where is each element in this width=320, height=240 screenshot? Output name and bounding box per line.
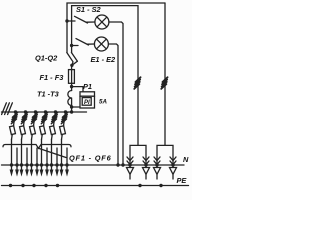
node lamp2 return on N — [116, 163, 119, 166]
wire phase A: left vertical riser x67 up and across top to right riser x165 — [67, 3, 165, 53]
circuit breaker QF4 — [40, 110, 48, 139]
node lamp1 return on N — [121, 163, 124, 166]
wire group line 3 (neutral stub) with arrow — [35, 148, 39, 177]
socket symbol (box2 right leg) open triangle below N bus — [170, 165, 177, 179]
wire meter bottom tap — [72, 106, 80, 108]
wire lamp2 return to N — [108, 44, 118, 165]
svg-text:P1: P1 — [83, 82, 92, 91]
node feeder to bus — [70, 110, 73, 113]
wire to lamp 2 — [88, 43, 95, 45]
switch Q1-Q2 lever 2 — [71, 53, 77, 62]
N bus — [2, 164, 185, 166]
leader line to label — [39, 148, 67, 157]
plug connector (box1 left leg) chevrons on N bus — [127, 157, 133, 167]
phase bus — [2, 111, 87, 113]
switch Q1-Q2 (double pole) lever 1 — [67, 53, 73, 66]
plug connector (box2 right leg) chevrons on N bus — [170, 157, 176, 167]
riser hatch mark (breaker) on x138 — [134, 77, 140, 89]
lamp (S1-S2 circuit) circle with cross — [95, 15, 109, 29]
svg-text:Q1-Q2: Q1-Q2 — [35, 54, 58, 63]
wire lamp1 return to N — [109, 22, 123, 165]
wire to lamp 1 — [87, 21, 95, 23]
wire group line 4 (phase) to N bus crossing — [40, 140, 44, 177]
box1 (socket group) — [130, 145, 146, 165]
brace for QF1-QF6 — [3, 145, 71, 149]
PE bus connection dots — [9, 184, 163, 187]
circuit breaker QF3 — [30, 110, 38, 139]
wire group line 4 (neutral stub) with arrow — [45, 148, 49, 177]
meter P1 box — [80, 92, 95, 108]
wire group line 6 (phase) to N bus crossing — [60, 140, 64, 177]
svg-text:5A: 5A — [99, 99, 107, 106]
plug connector (box2 left leg) chevrons on N bus — [154, 157, 160, 167]
wire group line 1 (phase) to N bus crossing — [10, 140, 14, 177]
circuit breaker QF2 — [20, 110, 28, 139]
wire meter top tap — [72, 87, 83, 92]
wire group line 2 (neutral stub) with arrow — [25, 148, 29, 177]
node below Q1-Q2 — [70, 64, 73, 67]
wire group line 5 (neutral stub) with arrow — [55, 148, 59, 177]
circuit breaker QF1 — [10, 110, 18, 139]
socket symbol (box1 right leg) open triangle below N bus — [143, 165, 150, 179]
wire group line 3 (phase) to N bus crossing — [30, 140, 34, 177]
socket symbol (box1 left leg) open triangle below N bus — [127, 165, 134, 179]
circuit breaker QF6 — [60, 110, 68, 139]
box2 (socket group) — [157, 145, 173, 165]
svg-text:N: N — [183, 155, 189, 164]
circuit breaker QF5 — [50, 110, 58, 139]
wire phase B: left vertical riser x71.6 up and across top to riser x138 — [72, 6, 138, 53]
node tap for switch E1-E2 — [70, 44, 73, 47]
wire fuse to CT — [71, 83, 73, 90]
wire group line 6 (neutral stub) with arrow — [65, 148, 69, 177]
wire riser to box2 (x165 down) — [164, 3, 166, 145]
wire converge below Q1-Q2 — [72, 61, 77, 65]
current transformer T1-T3 (two arcs) — [68, 91, 72, 106]
switch (E1-E2 circuit) lever — [76, 39, 89, 45]
svg-text:QF1 - QF6: QF1 - QF6 — [69, 154, 112, 163]
riser hatch mark (breaker) on x165 — [161, 77, 167, 89]
svg-text:PE: PE — [177, 176, 188, 185]
lamp E1-E2 circle with cross — [94, 37, 108, 51]
wire to fuse — [71, 65, 73, 69]
node tap for switch S1-S2 — [65, 19, 68, 22]
switch S1-S2 lever — [75, 16, 88, 23]
wire group line 1 (neutral stub) with arrow — [15, 148, 19, 177]
PE bus — [2, 185, 189, 187]
wire CT to bus — [71, 98, 73, 112]
wire stub to E1-E2 switch — [72, 45, 78, 47]
wire group line 2 (phase) to N bus crossing — [20, 140, 24, 177]
node meter top tap — [70, 85, 73, 88]
socket symbol (box2 left leg) open triangle below N bus — [154, 165, 161, 179]
svg-text:S1 - S2: S1 - S2 — [76, 5, 102, 14]
three-phase marker slashes — [2, 103, 13, 115]
svg-text:F1 - F3: F1 - F3 — [40, 73, 65, 82]
wire riser to box1 (x138 down) — [137, 6, 139, 146]
plug connector (box1 right leg) chevrons on N bus — [143, 157, 149, 167]
svg-text:E1 - E2: E1 - E2 — [91, 55, 117, 64]
svg-text:T1 -T3: T1 -T3 — [37, 90, 60, 99]
wire group line 5 (phase) to N bus crossing — [50, 140, 54, 177]
node meter bottom tap — [70, 105, 73, 108]
svg-text:Pl: Pl — [84, 100, 90, 106]
fuse F1-F3 — [69, 70, 75, 84]
wire stub to S1-S2 — [67, 20, 75, 22]
